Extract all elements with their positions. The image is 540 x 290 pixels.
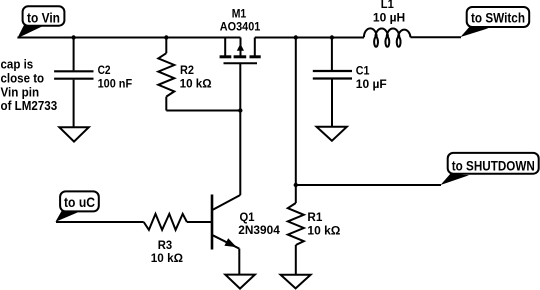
svg-text:R1: R1 bbox=[307, 210, 322, 224]
svg-text:100 nF: 100 nF bbox=[98, 77, 133, 91]
svg-text:2N3904: 2N3904 bbox=[238, 223, 280, 237]
svg-text:AO3401: AO3401 bbox=[220, 20, 261, 34]
svg-text:M1: M1 bbox=[232, 7, 247, 21]
svg-text:Vin pin: Vin pin bbox=[1, 86, 40, 100]
svg-text:10 kΩ: 10 kΩ bbox=[307, 223, 340, 237]
svg-text:10 µF: 10 µF bbox=[356, 77, 387, 91]
svg-text:10 µH: 10 µH bbox=[373, 11, 405, 25]
svg-text:C1: C1 bbox=[356, 63, 370, 77]
svg-text:to SHUTDOWN: to SHUTDOWN bbox=[452, 158, 535, 174]
svg-text:to SWitch: to SWitch bbox=[471, 10, 525, 26]
svg-text:to uC: to uC bbox=[64, 194, 95, 210]
svg-text:10 kΩ: 10 kΩ bbox=[151, 251, 184, 265]
svg-text:of LM2733: of LM2733 bbox=[1, 99, 58, 113]
svg-text:10 kΩ: 10 kΩ bbox=[180, 77, 212, 91]
svg-text:to Vin: to Vin bbox=[27, 9, 60, 25]
svg-text:C2: C2 bbox=[98, 63, 111, 77]
svg-text:close to: close to bbox=[1, 72, 45, 86]
svg-text:Q1: Q1 bbox=[240, 210, 255, 224]
svg-text:R3: R3 bbox=[158, 238, 173, 252]
svg-text:L1: L1 bbox=[381, 0, 394, 11]
svg-text:R2: R2 bbox=[180, 63, 194, 77]
svg-text:cap is: cap is bbox=[1, 57, 34, 71]
